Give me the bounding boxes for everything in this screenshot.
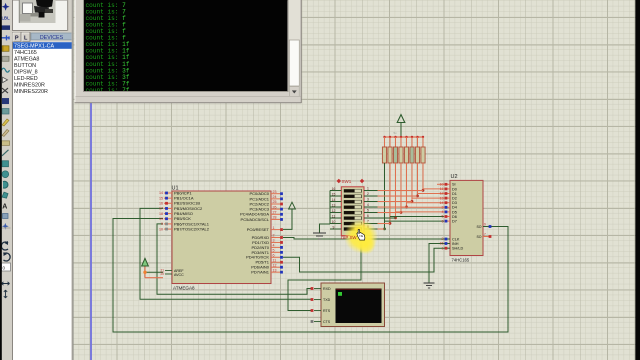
svg-text:U2: U2	[451, 174, 458, 180]
svg-text:13: 13	[273, 268, 277, 272]
svg-text:SO: SO	[476, 225, 481, 229]
svg-text:DIPSW_8: DIPSW_8	[14, 70, 38, 76]
svg-text:2: 2	[273, 234, 275, 238]
svg-text:1: 1	[273, 226, 275, 230]
svg-text:AVCC: AVCC	[174, 273, 184, 277]
svg-text:74HC165: 74HC165	[14, 50, 37, 56]
svg-text:11: 11	[440, 187, 444, 191]
svg-text:3: 3	[273, 239, 275, 243]
svg-text:14: 14	[332, 198, 336, 202]
svg-text:ATMEGA8: ATMEGA8	[14, 57, 39, 63]
svg-text:11: 11	[273, 258, 277, 262]
svg-text:SO: SO	[476, 235, 481, 239]
svg-text:13: 13	[332, 203, 336, 207]
svg-text:19: 19	[159, 217, 163, 221]
svg-text:A: A	[2, 204, 7, 211]
svg-text:15: 15	[440, 242, 444, 246]
svg-text:7SEG-MPX1-CA: 7SEG-MPX1-CA	[14, 44, 55, 50]
svg-text:DEVICES: DEVICES	[40, 35, 64, 41]
svg-text:10: 10	[332, 220, 336, 224]
svg-text:13: 13	[440, 196, 444, 200]
svg-text:5: 5	[442, 215, 444, 219]
svg-text:12: 12	[273, 263, 277, 267]
svg-text:4: 4	[273, 244, 275, 248]
svg-text:PD7/AIN1: PD7/AIN1	[251, 270, 270, 275]
svg-text:D7: D7	[452, 220, 457, 224]
svg-text:MINRES20R: MINRES20R	[14, 83, 45, 89]
svg-text:12: 12	[440, 192, 444, 196]
svg-text:TXD: TXD	[323, 298, 331, 302]
svg-text:14: 14	[159, 191, 163, 195]
svg-text:15: 15	[159, 196, 163, 200]
svg-text:D3: D3	[452, 201, 457, 205]
svg-text:6: 6	[367, 214, 369, 218]
svg-text:20: 20	[160, 272, 164, 276]
svg-text:74HC165: 74HC165	[452, 258, 470, 263]
svg-text:SW1: SW1	[342, 179, 352, 184]
svg-text:1: 1	[367, 187, 369, 191]
svg-text:4: 4	[442, 210, 444, 214]
svg-text:9: 9	[161, 222, 163, 226]
svg-text:26: 26	[273, 205, 277, 209]
svg-text:D6: D6	[452, 215, 457, 219]
svg-text:CTS: CTS	[323, 320, 331, 324]
svg-text:SI: SI	[452, 183, 456, 187]
svg-text:15: 15	[332, 192, 336, 196]
svg-text:9: 9	[484, 223, 486, 227]
svg-text:ATMEGA8: ATMEGA8	[173, 286, 195, 291]
svg-text:PC5/ADC5/SCL: PC5/ADC5/SCL	[241, 217, 270, 222]
svg-text:LBL: LBL	[2, 15, 11, 20]
svg-text:D2: D2	[452, 197, 457, 201]
svg-text:25: 25	[273, 200, 277, 204]
svg-text:12: 12	[332, 209, 336, 213]
svg-text:D0: D0	[452, 187, 457, 191]
svg-text:23: 23	[273, 190, 277, 194]
svg-text:6: 6	[442, 219, 444, 223]
svg-text:17: 17	[159, 207, 163, 211]
svg-text:5: 5	[273, 249, 275, 253]
svg-text:D5: D5	[452, 210, 457, 214]
svg-text:3: 3	[442, 206, 444, 210]
svg-text:RTS: RTS	[323, 309, 331, 313]
svg-text:24: 24	[273, 195, 277, 199]
svg-text:7: 7	[484, 233, 486, 237]
svg-text:RXD: RXD	[323, 287, 331, 291]
svg-text:2: 2	[442, 237, 444, 241]
svg-text:L: L	[24, 36, 28, 42]
svg-text:14: 14	[440, 201, 444, 205]
svg-text:10: 10	[159, 227, 163, 231]
svg-text:2: 2	[367, 192, 369, 196]
svg-text:DIP SW: DIP SW	[341, 235, 357, 240]
svg-text:5v: 5v	[394, 131, 398, 135]
svg-text:9: 9	[333, 225, 335, 229]
svg-text:PC6/RESET: PC6/RESET	[247, 227, 270, 232]
svg-text:P: P	[15, 36, 19, 42]
svg-text:27: 27	[273, 211, 277, 215]
svg-text:SH/LD: SH/LD	[452, 247, 463, 251]
svg-text:MINRES220R: MINRES220R	[14, 89, 48, 95]
svg-text:CLK: CLK	[452, 237, 460, 241]
svg-text:5: 5	[367, 209, 369, 213]
svg-text:28: 28	[273, 216, 277, 220]
svg-text:16: 16	[159, 202, 163, 206]
svg-text:4: 4	[367, 203, 369, 207]
svg-text:18: 18	[159, 212, 163, 216]
svg-text:3: 3	[367, 198, 369, 202]
svg-text:LED-RED: LED-RED	[14, 76, 38, 82]
svg-text:1: 1	[442, 246, 444, 250]
svg-text:INH: INH	[452, 242, 459, 246]
svg-text:16: 16	[332, 187, 336, 191]
svg-text:BUTTON: BUTTON	[14, 63, 36, 69]
svg-text:D1: D1	[452, 192, 457, 196]
svg-text:10: 10	[440, 183, 444, 187]
svg-text:6: 6	[273, 254, 275, 258]
svg-text:11: 11	[332, 214, 336, 218]
svg-text:D4: D4	[452, 206, 457, 210]
svg-text:PB7/TOSC2/XTAL2: PB7/TOSC2/XTAL2	[174, 226, 210, 231]
